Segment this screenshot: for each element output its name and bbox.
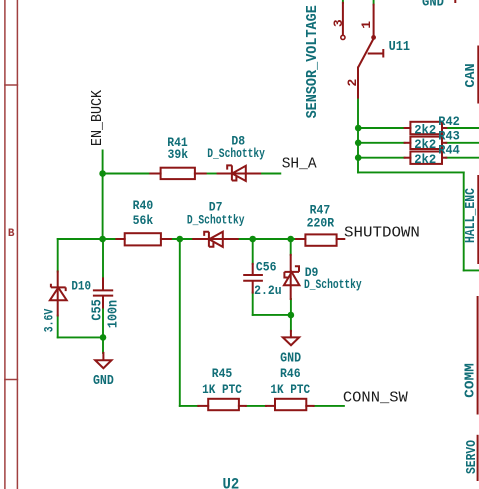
pin stub R44 left	[405, 157, 411, 159]
pin stub R42 left	[405, 127, 411, 129]
wire C56 top vertical	[252, 239, 254, 264]
svg-text:U11: U11	[389, 38, 411, 54]
zener diode D10 symbol vertical	[50, 284, 67, 301]
switch U11 pin1 pivot dot	[371, 35, 376, 40]
sheet border frame left inner line	[16, 0, 18, 489]
capacitor C55 bottom plate	[93, 295, 113, 297]
svg-text:CAN: CAN	[464, 63, 479, 87]
wire vertical branch to R45 row	[179, 239, 181, 406]
pin stub C55 top	[102, 278, 104, 289]
svg-text:2.2u: 2.2u	[254, 284, 281, 299]
pin line through D10	[57, 272, 59, 316]
wire D7 to R47	[238, 238, 296, 240]
svg-text:SENSOR_VOLTAGE: SENSOR_VOLTAGE	[304, 5, 321, 118]
pin stub GND below C55	[102, 353, 104, 360]
svg-text:1: 1	[359, 21, 374, 29]
svg-text:39k: 39k	[168, 147, 189, 162]
junction node R42 row	[355, 125, 362, 132]
resistor R42 body	[410, 122, 442, 134]
svg-text:R40: R40	[133, 199, 154, 214]
svg-text:D10: D10	[71, 279, 91, 294]
diode D7 schottky symbol	[204, 232, 223, 247]
svg-text:GND: GND	[280, 350, 301, 366]
wire C55 bottom to GND stub	[102, 308, 104, 353]
junction node D9 branch	[287, 236, 294, 243]
svg-text:3.6V: 3.6V	[42, 309, 57, 332]
wire right column vertical	[463, 172, 465, 270]
svg-text:2: 2	[345, 79, 360, 87]
wire horizontal to right column	[358, 171, 464, 173]
switch U11 pin3 open contact circle	[341, 35, 345, 39]
pin U11 pin2 vertical	[357, 68, 359, 98]
svg-text:1K PTC: 1K PTC	[202, 382, 242, 397]
svg-text:D_Schottky: D_Schottky	[187, 213, 245, 228]
wire C56 bottom vertical	[252, 293, 254, 315]
wire D10 bottom horizontal to C55 node	[58, 336, 103, 338]
pin stub R43 right	[442, 142, 446, 144]
svg-text:2k2: 2k2	[414, 153, 436, 167]
switch U11 lever	[358, 39, 374, 68]
svg-text:B: B	[8, 228, 15, 240]
svg-text:GND: GND	[93, 372, 114, 388]
switch U11 actuator T mark	[368, 49, 384, 58]
svg-text:R42: R42	[438, 114, 460, 129]
sheet pin outline CAN	[477, 46, 479, 104]
pin line through D9	[290, 255, 292, 299]
pin stub C56 bottom	[252, 282, 254, 292]
svg-text:220R: 220R	[307, 216, 335, 231]
wire D10 top vertical	[57, 239, 59, 272]
resistor R44 body	[410, 152, 442, 164]
pin stub R45 right	[239, 405, 246, 407]
pin stub top GND remnant	[454, 0, 456, 2]
wire right column to sheet edge	[464, 269, 479, 271]
capacitor C56 top plate	[243, 274, 263, 276]
wire D9 top vertical	[290, 239, 292, 255]
pin stub C56 top	[252, 264, 254, 274]
wire U11 pin2 down vertical	[357, 98, 359, 173]
wire R45 to R46	[246, 405, 266, 407]
wire EN_BUCK vertical x=102.6	[102, 151, 104, 240]
wire node to R42	[358, 127, 405, 129]
svg-text:100n: 100n	[104, 300, 120, 328]
pin stub R46 right	[306, 405, 313, 407]
sheet pin outline COMM	[477, 296, 479, 415]
wire D9 bottom vertical through node	[290, 299, 292, 331]
svg-text:CONN_SW: CONN_SW	[343, 389, 409, 407]
wire R41 to D8	[206, 173, 218, 175]
svg-text:R45: R45	[212, 366, 233, 381]
junction node C56 branch	[249, 236, 256, 243]
pin stub R47 left	[296, 238, 305, 240]
wire U11 pin1 top stub	[373, 0, 375, 5]
pin line through D7	[193, 238, 238, 240]
svg-text:2k2: 2k2	[414, 138, 436, 152]
pin stub R41 right	[195, 173, 206, 175]
wire C56 bottom horizontal to D9 node	[253, 314, 291, 316]
pin stub R47 right	[337, 238, 345, 240]
pin stub R40 left	[116, 238, 124, 240]
resistor R43 body	[410, 137, 442, 149]
resistor R46 body	[275, 399, 306, 410]
pin U11 pin3 vertical	[342, 3, 344, 35]
svg-text:D_Schottky: D_Schottky	[304, 278, 362, 293]
svg-text:R46: R46	[280, 366, 301, 381]
pin stub C55 bottom	[102, 296, 104, 307]
svg-text:C55: C55	[88, 299, 104, 321]
wire R46 to CONN_SW label	[314, 405, 344, 407]
pin stub R41 left	[150, 173, 160, 175]
pin stub R40 right	[161, 238, 171, 240]
pin stub R42 right	[442, 127, 446, 129]
sheet border tick upper	[5, 84, 18, 86]
svg-text:EN_BUCK: EN_BUCK	[89, 90, 106, 146]
sheet pin outline HALL_ENC	[477, 175, 479, 264]
ground symbol triangle below C55	[95, 360, 111, 368]
svg-text:1K PTC: 1K PTC	[270, 382, 310, 397]
capacitor C56 bottom plate	[243, 280, 263, 282]
wire node to R44	[358, 157, 405, 159]
pin stub R43 left	[405, 142, 411, 144]
junction node R43 row	[355, 140, 362, 147]
junction node R44 row	[355, 154, 362, 161]
wire R43 to edge	[446, 142, 479, 144]
wire C55 top vertical	[102, 239, 104, 278]
wire R42 to edge	[446, 127, 479, 129]
diode D9 schottky symbol vertical	[284, 266, 300, 285]
svg-text:GND: GND	[422, 0, 444, 10]
wire corner to R45	[180, 405, 199, 407]
wire U11 pin3 top stub	[342, 0, 344, 3]
svg-text:D_Schottky: D_Schottky	[207, 147, 265, 162]
ground symbol triangle below D9	[283, 337, 299, 345]
junction node R45 branch	[177, 236, 184, 243]
wire R44 to edge	[446, 157, 479, 159]
svg-text:HALL_ENC: HALL_ENC	[463, 188, 478, 243]
junction node C55/D10/GND	[100, 334, 107, 341]
svg-text:COMM: COMM	[463, 363, 478, 398]
svg-text:SH_A: SH_A	[282, 156, 317, 172]
wire node to R43	[358, 142, 405, 144]
svg-text:R44: R44	[438, 143, 460, 158]
pin stub R45 left	[198, 405, 208, 407]
pin stub R44 right	[442, 157, 446, 159]
sheet pin outline SERVO	[477, 435, 479, 481]
junction node EN_BUCK/SH_A row	[99, 170, 106, 177]
svg-text:R43: R43	[438, 129, 460, 144]
wire R40 to D7	[171, 238, 193, 240]
pin stub R46 left	[266, 405, 275, 407]
junction node C56/D9/GND	[288, 312, 295, 319]
pin U11 pin1 vertical	[373, 5, 375, 35]
svg-text:C56: C56	[256, 260, 277, 275]
sheet border frame left outer line	[4, 0, 6, 489]
svg-text:2k2: 2k2	[414, 123, 436, 137]
sheet border tick lower	[5, 379, 18, 381]
pin line through D8	[218, 173, 261, 175]
junction node EN_BUCK/SHUTDOWN row	[99, 236, 106, 243]
svg-text:3: 3	[331, 19, 346, 27]
wire row SH_A left segment	[102, 173, 150, 175]
capacitor C55 top plate	[93, 289, 113, 291]
resistor R40 body	[125, 233, 161, 245]
wire D10 bottom vertical	[57, 316, 59, 338]
wire row SHUTDOWN left segment (D10 corner to R40)	[58, 238, 117, 240]
svg-text:56k: 56k	[133, 213, 154, 228]
pin stub GND below D9	[290, 331, 292, 337]
diode D8 schottky symbol	[227, 165, 246, 181]
wire D8 to SH_A label	[260, 173, 280, 175]
resistor R45 body	[208, 399, 239, 410]
svg-text:U2: U2	[223, 475, 240, 489]
svg-text:SHUTDOWN: SHUTDOWN	[344, 224, 420, 242]
resistor R47 body	[305, 234, 336, 245]
resistor R41 body	[161, 168, 195, 179]
